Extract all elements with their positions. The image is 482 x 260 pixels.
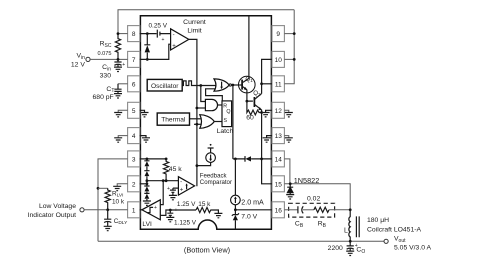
wire pin 8 to 0.25V offset (140, 33, 157, 35)
snubber dashed box (289, 203, 335, 217)
node pin8 internal junction (146, 32, 149, 35)
node inductor/CO junction on rail (349, 240, 352, 243)
svg-text:330: 330 (100, 73, 112, 80)
op-amp LVI comparator (142, 200, 160, 220)
svg-text:5: 5 (132, 108, 136, 115)
wire thermal to OR input (190, 118, 202, 120)
node bus pin 10 (293, 58, 296, 61)
node pin8/Rsc junction (117, 32, 120, 35)
wire Vin top rail over IC to collector pins (118, 10, 294, 34)
wire gate output to Q1 base (231, 84, 243, 86)
pin 14 box (272, 151, 284, 167)
diode 1N5822 catch diode (287, 184, 293, 195)
ground at pin 5 left (114, 113, 122, 117)
wire collector bus pins 9-10-11 (284, 10, 294, 84)
svg-text:(Bottom View): (Bottom View) (184, 246, 230, 255)
wire OR to latch S (214, 121, 222, 123)
svg-text:-: - (180, 180, 182, 186)
svg-text:3: 3 (132, 157, 136, 164)
svg-text:+: + (154, 205, 157, 211)
wire pin 14 internal (233, 158, 272, 160)
node 1.125V junction (169, 209, 172, 212)
node pin14/2mA junction (234, 158, 237, 161)
pin 6 box (128, 76, 140, 92)
ground at pin 4 inside (142, 138, 150, 142)
resistor 60 base-emitter (247, 101, 262, 115)
ground at pin 5 inside (141, 113, 149, 117)
svg-text:12: 12 (275, 108, 283, 115)
svg-text:14: 14 (275, 157, 283, 164)
terminal Vout (384, 239, 388, 243)
resistor 45k (164, 159, 169, 181)
wire Q1 collector to top rail (248, 16, 250, 79)
wire LVI output to pin 1 (84, 209, 128, 211)
wire branch to RLVI top (98, 187, 108, 189)
svg-text:10 k: 10 k (112, 199, 125, 206)
wire pin 11 (262, 83, 272, 85)
svg-text:8: 8 (132, 31, 136, 38)
wire pin 13 left to ground (267, 136, 272, 138)
pin 8 box (128, 26, 140, 42)
ground for CT (114, 94, 122, 98)
svg-text:0.075: 0.075 (98, 51, 112, 57)
svg-text:0.02: 0.02 (307, 196, 320, 203)
pin 2 box (128, 176, 140, 192)
capacitor CO 2200 polarized (347, 241, 354, 251)
diode base clamp to pin 14 (244, 156, 246, 162)
wire pin 3 feedback sense down to output rail (98, 159, 128, 241)
wire pin 5 right to ground (140, 110, 145, 112)
svg-text:L: L (344, 227, 348, 234)
wire pin 4 left to ground (118, 136, 127, 138)
inductor core lines (356, 216, 359, 237)
wire LVI minus to reference (160, 210, 196, 215)
svg-text:7: 7 (132, 57, 136, 64)
battery 0.25V offset (157, 30, 170, 38)
ground for 1.125V (166, 217, 174, 221)
svg-text:0.25 V: 0.25 V (149, 23, 168, 30)
svg-text:Comparator: Comparator (200, 179, 232, 186)
ground at pin 2 (113, 186, 121, 190)
node RLVI/CDLY junction (106, 208, 109, 211)
ground at pin 13 right (285, 138, 293, 142)
svg-text:2200: 2200 (328, 245, 343, 252)
wire bus pins 14-15 (284, 159, 290, 184)
gate drive NOR with arrow (214, 79, 229, 91)
wire pin 7 internal with riser to comparator + (140, 44, 171, 59)
pin 13 box (272, 128, 284, 144)
capacitor Cin 330 polarized (114, 59, 121, 67)
transistor Q2 (253, 97, 255, 107)
node bus pin 9 (293, 32, 296, 35)
terminal Vin 12V (86, 57, 90, 61)
wire pin 3 internal (140, 158, 166, 160)
node Vin/Rsc/Cin junction (117, 58, 120, 61)
ground at pin 4 left (114, 138, 122, 142)
svg-text:9: 9 (276, 31, 280, 38)
zener 7.0V clamp (232, 213, 239, 216)
svg-text:60: 60 (246, 115, 254, 122)
wire pin 5 left to ground (118, 110, 127, 112)
IC package outline (bottom view) with orientation notch (140, 16, 271, 230)
pin 1 box (128, 202, 140, 218)
wire pin 16 internal (235, 209, 272, 211)
svg-text:180 μH: 180 μH (367, 217, 389, 224)
wire pin 8 to Rsc node (118, 33, 128, 35)
svg-text:Indicator Output: Indicator Output (28, 212, 76, 219)
node Q2 base junction (246, 100, 249, 103)
wire pin 6 to CT (118, 83, 128, 85)
node column/pin2 junction (146, 182, 149, 185)
wire current source to comparator node (197, 162, 211, 165)
node diode column top (146, 158, 149, 161)
wire pin 16 to snubber (284, 209, 297, 211)
pin 5 box (128, 102, 140, 118)
ground at pin 13 inside (263, 138, 271, 142)
wire comparator node to AND gate input (197, 107, 206, 109)
wire AND to latch R (218, 104, 223, 106)
pin 16 box (272, 202, 284, 218)
node OR input junction (196, 123, 199, 126)
svg-text:1: 1 (132, 207, 136, 214)
svg-text:Latch: Latch (217, 128, 234, 135)
svg-text:+: + (122, 62, 125, 68)
wire latch Q to gate input (206, 89, 223, 101)
node pin14/emitter junction (260, 158, 263, 161)
svg-text:LVI: LVI (142, 221, 152, 228)
pin 15 box (272, 176, 284, 192)
svg-text:45 k: 45 k (169, 166, 182, 173)
svg-text:4: 4 (132, 133, 136, 140)
op-amp current limit comparator (171, 29, 189, 50)
svg-text:12 V: 12 V (71, 62, 85, 69)
svg-text:1.125 V: 1.125 V (174, 220, 197, 227)
transistor Q1 (239, 76, 256, 93)
pin 12 box (272, 102, 284, 118)
current source internal pull-up (206, 153, 216, 163)
svg-text:2: 2 (132, 181, 136, 188)
node snubber/inductor junction (349, 208, 352, 211)
ground for CDLY (104, 226, 112, 230)
wire Q2 collector to pins 10 11 (262, 59, 272, 93)
wire oscillator to AND gate (201, 86, 206, 102)
pin 7 box (128, 51, 140, 67)
svg-text:15: 15 (275, 181, 283, 188)
op-amp feedback comparator (178, 177, 194, 195)
current source 2.0mA (234, 159, 236, 195)
svg-text:Q: Q (226, 109, 230, 115)
ground for 1N5822 (286, 195, 294, 199)
wire comparator node to OR input (194, 123, 202, 125)
svg-text:-: - (173, 33, 175, 39)
wire Q1 emitter to Q2 base (247, 90, 253, 102)
wire oscillator output with clock waveform (182, 81, 216, 86)
wire LVI output to pin 1 (140, 209, 142, 211)
capacitor CB (298, 206, 303, 213)
svg-text:S: S (224, 118, 228, 124)
capacitor CT 680pF (114, 84, 121, 94)
capacitor CDLY (104, 210, 111, 226)
svg-text:+: + (180, 187, 184, 193)
wire Vin to pin 7 (90, 58, 128, 60)
wire pin 12 left to ground (266, 110, 272, 112)
svg-text:Low Voltage: Low Voltage (39, 203, 76, 210)
node current source junction (196, 164, 199, 167)
node pin 11 junction (260, 82, 263, 85)
node AND input junction (196, 107, 199, 110)
svg-text:+: + (162, 37, 165, 43)
pin 9 box (272, 26, 284, 42)
svg-text:+: + (172, 43, 176, 49)
or-gate latch set (200, 115, 215, 129)
node emitter/60 junction (260, 111, 263, 114)
ground at pin 12 inside (262, 113, 270, 117)
wire Q2 emitter down to pin 15 (262, 110, 272, 184)
node pin16/2mA junction (234, 208, 237, 211)
terminal Low Voltage Indicator Output (80, 208, 84, 212)
svg-text:13: 13 (275, 133, 283, 140)
svg-text:+: + (175, 208, 178, 214)
ground for 1.25V (169, 195, 177, 199)
wire pin 2 left to ground (117, 184, 127, 186)
node 45k top (165, 158, 168, 161)
resistor RB 0.02 (314, 207, 329, 212)
node base clamp junction (232, 84, 235, 87)
node LVI riser top (162, 179, 165, 182)
svg-text:1.25 V: 1.25 V (177, 201, 196, 208)
wire pin 12 right to ground (284, 110, 288, 112)
svg-text:11: 11 (275, 81, 282, 88)
wire LVI plus riser (160, 181, 163, 205)
diode pin8 to pin7 clamp (144, 34, 150, 60)
wire current limit output down (189, 39, 197, 186)
and-gate latch reset (205, 99, 217, 110)
wire base clamp vertical (232, 85, 234, 159)
svg-text:Thermal: Thermal (161, 117, 186, 124)
ground for Cin (114, 67, 122, 71)
resistor Rsc 0.075 (115, 34, 120, 60)
node pin7 internal junction (146, 58, 149, 61)
svg-text:Limit: Limit (187, 28, 201, 35)
ground for diode column (143, 201, 151, 205)
diode column clamp stack (144, 159, 149, 201)
node column/minus junction (146, 179, 149, 182)
latch U2 (222, 101, 232, 127)
resistor 15k (196, 207, 218, 213)
wire pin 15 switch node to inductor (284, 184, 350, 210)
svg-text:16: 16 (275, 207, 283, 214)
svg-text:+: + (167, 186, 170, 192)
inductor L 180uH coil (349, 210, 350, 242)
ground for CO (346, 251, 354, 255)
svg-text:1N5822: 1N5822 (294, 176, 320, 185)
svg-text:10: 10 (275, 57, 283, 64)
wire pin 4 right to ground (140, 136, 146, 138)
node feedback/RLVI branch (97, 187, 100, 190)
pin 4 box (128, 128, 140, 144)
wire output rail Vout (98, 240, 384, 242)
resistor RLVI 10k (105, 188, 110, 210)
wire feedback minus line (147, 180, 179, 182)
ground for 15k (214, 213, 222, 217)
svg-text:6: 6 (132, 81, 136, 88)
oscillator block (147, 79, 182, 91)
pin 10 box (272, 51, 284, 67)
node 45k bottom (165, 179, 168, 182)
node oscillator branch (199, 84, 202, 87)
svg-text:Oscillator: Oscillator (151, 83, 179, 90)
thermal block (157, 113, 189, 125)
svg-text:2.0 mA: 2.0 mA (241, 198, 264, 206)
wire pin 13 right to ground (284, 136, 288, 138)
battery 1.125V reference (167, 210, 173, 217)
svg-text:Coilcraft LO451-A: Coilcraft LO451-A (367, 227, 421, 234)
node switch/diode junction (289, 182, 292, 185)
svg-text:7.0 V: 7.0 V (241, 214, 257, 221)
svg-text:Current: Current (183, 19, 206, 26)
pin 11 box (272, 76, 284, 92)
svg-text:680 pF: 680 pF (93, 94, 114, 101)
svg-text:15 k: 15 k (198, 201, 211, 208)
wire pin 2 internal (140, 183, 147, 185)
svg-text:5.05 V/3.0 A: 5.05 V/3.0 A (394, 245, 432, 252)
battery 1.25V reference (170, 188, 179, 195)
wire CB to RB (303, 209, 314, 211)
pin 3 box (128, 151, 140, 167)
wire RB to switch node (329, 209, 350, 211)
ground at pin 12 right (285, 113, 293, 117)
